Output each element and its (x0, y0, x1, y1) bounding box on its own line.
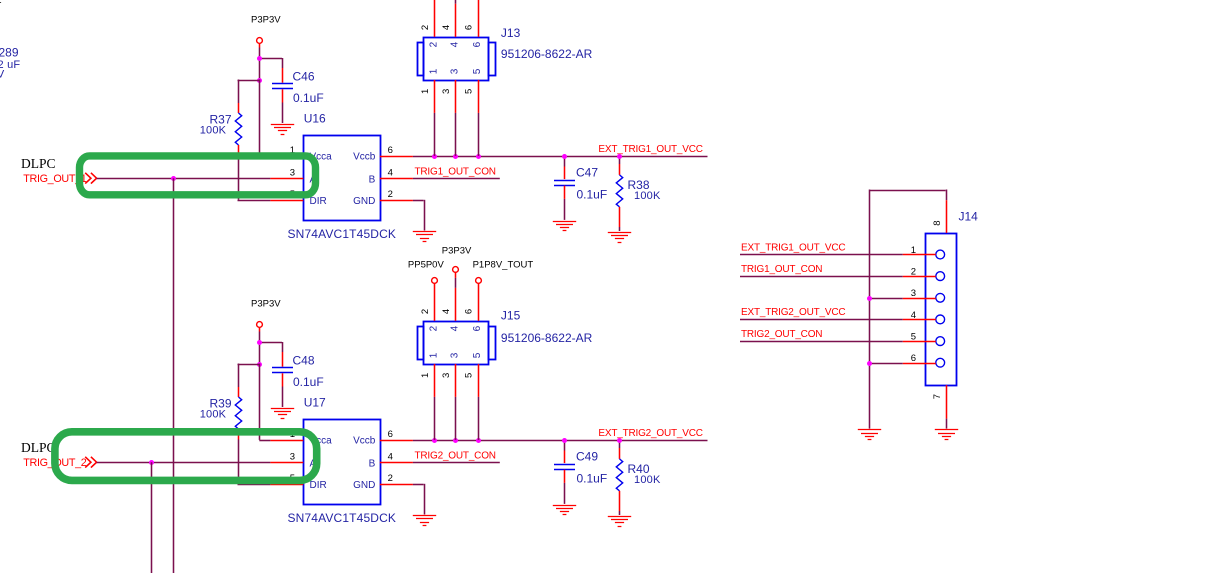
svg-text:2: 2 (388, 473, 393, 484)
wire J14 ground rail vertical (869, 190, 871, 429)
wire bus to cap C47 (564, 156, 566, 167)
capacitor C48 (272, 368, 293, 373)
junction bus res (617, 438, 622, 443)
wire cap drop (282, 342, 284, 352)
wire rail to Vcca horizontal (259, 440, 270, 442)
svg-text:2: 2 (429, 325, 440, 331)
power symbol P3P3V (U16 rail) (257, 38, 263, 44)
svg-text:3: 3 (911, 288, 916, 299)
wire GND pin (U17) (413, 484, 424, 486)
pin lead cap bottom red (282, 89, 284, 102)
wire power stem red (259, 43, 261, 48)
svg-text:TRIG2_OUT_CON: TRIG2_OUT_CON (741, 329, 822, 340)
wire R39 to DIR horizontal (238, 484, 271, 486)
pin lead cap top red (282, 68, 284, 83)
svg-text:2: 2 (911, 267, 916, 278)
svg-text:6: 6 (472, 41, 483, 47)
svg-text:B: B (369, 175, 376, 186)
svg-text:P3P3V: P3P3V (442, 245, 472, 256)
svg-text:5: 5 (472, 352, 483, 358)
pin 1 Vcca stub (U17) (270, 440, 303, 442)
wire TRIG_OUT_1 net (97, 178, 271, 180)
wire PP5P0V to J15 pin2 (434, 283, 436, 321)
svg-text:3: 3 (441, 89, 452, 94)
wire net EXT_TRIG1_OUT_VCC to J14 pin1 (740, 254, 903, 256)
wire cap to ground (282, 103, 284, 124)
junction J14 pin6 gnd (867, 361, 872, 366)
wire R37 to DIR horizontal (238, 200, 271, 202)
svg-text:3: 3 (441, 373, 452, 378)
junction bus cap (562, 438, 567, 443)
wire rail to Vcca vertical (259, 80, 261, 156)
svg-text:J14: J14 (959, 210, 979, 224)
pin lead R37 top red (238, 103, 240, 113)
wire rail to Vcca vertical (259, 364, 261, 440)
svg-text:TRIG1_OUT_CON: TRIG1_OUT_CON (741, 264, 822, 275)
svg-text:6: 6 (463, 309, 474, 314)
wire J13 pin 5 to bus (478, 113, 480, 156)
wire net EXT_TRIG2_OUT_VCC (413, 440, 708, 442)
svg-text:C46: C46 (293, 69, 315, 83)
pin lead cap top red (282, 352, 284, 367)
svg-text:T: T (0, 1, 2, 12)
svg-text:P1P8V_TOUT: P1P8V_TOUT (473, 259, 534, 270)
wire bus to cap C49 (564, 440, 566, 451)
wire P1P8V_TOUT to J15 pin6 (478, 283, 480, 321)
wire rail to Vcca horizontal (259, 156, 270, 158)
capacitor C49 (554, 465, 575, 470)
connector J15 left tab (418, 327, 424, 360)
svg-text:100K: 100K (200, 409, 227, 421)
pin 4 B stub (U16) (380, 178, 413, 180)
pin 2 stub J14 red (903, 276, 936, 278)
wire J13 pin 1 to bus (434, 113, 436, 156)
pin lead C47 top red (564, 167, 566, 180)
connector J13 right tab (489, 43, 496, 76)
svg-text:100K: 100K (634, 190, 661, 202)
svg-text:2: 2 (420, 25, 431, 30)
wire J13 pin 3 to bus (455, 113, 457, 156)
wire rail to R39 (238, 364, 260, 366)
power symbol P1P8V_TOUT (476, 278, 482, 284)
svg-text:6: 6 (472, 325, 483, 331)
svg-text:C47: C47 (576, 166, 598, 180)
wire net EXT_TRIG2_OUT_VCC to J14 pin4 (740, 319, 903, 321)
svg-text:J13: J13 (501, 26, 521, 40)
power symbol PP5P0V (432, 278, 438, 284)
wire to cap C48 (259, 342, 282, 344)
connector J15 right tab (489, 327, 496, 360)
svg-text:5: 5 (911, 332, 916, 343)
pin 4 stub J14 red (903, 319, 936, 321)
svg-text:4: 4 (388, 168, 393, 179)
wire R39 to DIR vertical (238, 440, 240, 484)
wire J14 pin8 drop (946, 190, 948, 201)
svg-text:0.1uF: 0.1uF (293, 91, 324, 105)
wire J15 pin 3 to bus (455, 397, 457, 440)
wire J14 pin8 top (869, 190, 946, 192)
off-page connector chevron TRIG_OUT_2 (85, 457, 96, 468)
ground (R38) (608, 233, 631, 243)
ground (C47) (553, 222, 576, 231)
pin lead C49 bottom red (564, 470, 566, 483)
wire power stem (259, 332, 261, 343)
svg-text:6: 6 (911, 353, 916, 364)
pin 3 stub J13 bottom red (455, 80, 457, 113)
ground (U17 GND) (413, 516, 436, 526)
wire R40 to ground (619, 511, 621, 515)
power symbol P3P3V (J15) (453, 267, 459, 273)
junction bus J pin5 (476, 438, 481, 443)
svg-text:3: 3 (450, 352, 461, 358)
pin 1 Vcca stub (U16) (270, 156, 303, 158)
svg-text:J15: J15 (501, 309, 521, 323)
svg-text:1: 1 (420, 373, 431, 378)
svg-text:P3P3V: P3P3V (251, 299, 281, 310)
wire J13 pin6 top off-page (478, 0, 480, 37)
wire GND drop (U17) (424, 484, 426, 515)
pin 6 Vccb stub (U17) (380, 440, 413, 442)
svg-text:GND: GND (353, 196, 375, 207)
pin 4 stub J15 top red (455, 288, 457, 321)
junction bus J pin3 (453, 438, 458, 443)
svg-text:4: 4 (441, 25, 452, 30)
wire P3P3V net segment (J15) (455, 278, 457, 288)
pin 1 stub J13 bottom red (434, 80, 436, 113)
wire C49 to ground (564, 483, 566, 504)
svg-text:EXT_TRIG1_OUT_VCC: EXT_TRIG1_OUT_VCC (598, 144, 702, 155)
wire GND drop (U16) (424, 200, 426, 231)
ground (U16 GND) (413, 232, 436, 242)
wire J15 pin 1 to bus (434, 397, 436, 440)
svg-text:6: 6 (388, 145, 393, 156)
svg-text:3: 3 (290, 452, 295, 463)
svg-text:GND: GND (353, 480, 375, 491)
pin 4 B stub (U17) (380, 462, 413, 464)
junction rail top (257, 340, 262, 345)
pin lead C49 top red (564, 451, 566, 464)
pin 5 DIR stub (U17) (270, 484, 303, 486)
wire R37 to DIR vertical (238, 156, 240, 200)
pin lead R39 top red (238, 387, 240, 397)
wire J13 pin2 top off-page (434, 0, 436, 37)
pin lead R38 bottom red (619, 207, 621, 227)
wire R38 to ground (619, 227, 621, 231)
svg-text:4: 4 (450, 325, 461, 331)
pin 2 GND stub (U16) (380, 200, 413, 202)
pin 1 circle (J14) (936, 250, 945, 259)
svg-text:Vccb: Vccb (353, 435, 376, 446)
svg-text:951206-8622-AR: 951206-8622-AR (501, 47, 593, 61)
wire TRIG_OUT_2 net (97, 462, 271, 464)
IC U16 body (304, 136, 381, 221)
svg-text:DLPC: DLPC (21, 440, 56, 455)
junction J14 pin3 gnd (867, 296, 872, 301)
pin 5 stub J13 bottom red (478, 80, 480, 113)
pin 2 GND stub (U17) (380, 484, 413, 486)
connector J15 body (424, 322, 489, 365)
svg-text:8: 8 (932, 220, 943, 225)
resistor R39 (235, 397, 241, 429)
wire R39 drop (238, 364, 240, 388)
svg-text:100K: 100K (634, 474, 661, 486)
svg-text:2: 2 (429, 41, 440, 47)
junction bus res (617, 154, 622, 159)
svg-text:3: 3 (450, 68, 461, 74)
wire net TRIG1_OUT_CON to J14 pin2 (740, 276, 903, 278)
junction rail bottom (257, 362, 262, 367)
pin lead R40 top red (619, 448, 621, 459)
svg-text:EXT_TRIG2_OUT_VCC: EXT_TRIG2_OUT_VCC (598, 428, 702, 439)
svg-text:4: 4 (911, 310, 916, 321)
svg-text:Vccb: Vccb (353, 151, 376, 162)
svg-text:5: 5 (463, 89, 474, 94)
wire bus to R38 (619, 156, 621, 164)
svg-text:6: 6 (463, 25, 474, 30)
wire power stem red (259, 327, 261, 332)
svg-text:1: 1 (429, 352, 440, 358)
wire to cap C46 (259, 58, 282, 60)
svg-text:DLPC: DLPC (21, 156, 56, 171)
pin 3 stub J14 red (903, 298, 936, 300)
pin 7 stub J14 red (946, 385, 948, 419)
svg-text:0.1uF: 0.1uF (293, 375, 324, 389)
pin 6 Vccb stub (U16) (380, 156, 413, 158)
wire J14 pin7 to ground (946, 419, 948, 429)
pin 5 stub J14 red (903, 341, 936, 343)
wire rail vertical (259, 58, 261, 80)
svg-text:7: 7 (932, 394, 943, 399)
svg-text:U16: U16 (304, 111, 326, 125)
wire gnd to J14 pin3 (869, 298, 903, 300)
power symbol P3P3V (U17 rail) (257, 322, 263, 328)
wire rail vertical (259, 342, 261, 364)
svg-text:5: 5 (472, 68, 483, 74)
svg-text:1: 1 (420, 89, 431, 94)
annotation green oval 2 (TRIG_OUT_2 highlight) (55, 432, 317, 481)
resistor R37 (235, 113, 241, 145)
junction bus cap (562, 154, 567, 159)
svg-text:3: 3 (290, 168, 295, 179)
svg-text:1: 1 (911, 245, 916, 256)
ground (J14 pin7) (935, 430, 958, 440)
svg-text:0.1uF: 0.1uF (577, 188, 608, 202)
wire net TRIG2_OUT_CON (413, 462, 500, 464)
ground (C49) (553, 506, 576, 515)
pin 4 circle (J14) (936, 315, 945, 324)
svg-text:TRIG1_OUT_CON: TRIG1_OUT_CON (415, 166, 496, 177)
junction bus J pin1 (432, 438, 437, 443)
svg-text:V: V (0, 69, 5, 81)
pin 1 stub J14 red (903, 254, 936, 256)
svg-text:DIR: DIR (310, 480, 327, 491)
capacitor C47 (554, 181, 575, 186)
wire cap drop (282, 58, 284, 68)
ground (C46) (271, 125, 294, 135)
wire rail to R37 (238, 80, 260, 82)
junction TRIG_OUT_2 branch (149, 460, 154, 465)
wire power stem (259, 48, 261, 59)
svg-text:0.1uF: 0.1uF (577, 472, 608, 486)
wire net TRIG1_OUT_CON (413, 178, 500, 180)
svg-text:951206-8622-AR: 951206-8622-AR (501, 331, 593, 345)
wire P3P3V stem red (J15) (455, 272, 457, 278)
pin lead R37 bottom red (238, 145, 240, 156)
pin 8 stub J14 red (946, 200, 948, 233)
svg-text:4: 4 (450, 41, 461, 47)
pin 5 DIR stub (U16) (270, 200, 303, 202)
junction rail top (257, 56, 262, 61)
junction bus J pin5 (476, 154, 481, 159)
junction rail bottom (257, 78, 262, 83)
wire TRIG_OUT_1 vertical to bottom (173, 178, 175, 573)
ground (J14 rail) (858, 430, 881, 440)
IC U17 body (304, 420, 381, 505)
connector J13 left tab (418, 43, 424, 76)
svg-text:PP5P0V: PP5P0V (408, 259, 445, 270)
wire R37 drop (238, 80, 240, 104)
wire bus to R40 (619, 440, 621, 448)
svg-text:SN74AVC1T45DCK: SN74AVC1T45DCK (288, 511, 397, 525)
pin 5 stub J15 bottom red (478, 364, 480, 397)
wire GND pin (U16) (413, 200, 424, 202)
connector J14 body (926, 234, 957, 386)
pin 2 circle (J14) (936, 272, 945, 281)
pin 1 stub J15 bottom red (434, 364, 436, 397)
svg-text:289: 289 (0, 46, 19, 60)
ground (C48) (271, 409, 294, 419)
resistor R40 (616, 459, 622, 491)
wire net TRIG2_OUT_CON to J14 pin5 (740, 341, 903, 343)
wire J15 pin 5 to bus (478, 397, 480, 440)
pin 4 stub J13 top red (455, 4, 457, 37)
pin lead R40 bottom red (619, 491, 621, 511)
svg-text:4: 4 (388, 452, 393, 463)
svg-text:2: 2 (388, 189, 393, 200)
wire TRIG_OUT_2 vertical to bottom (151, 462, 153, 573)
connector J13 body (424, 38, 489, 81)
wire gnd to J14 pin6 (869, 363, 903, 365)
resistor R38 (616, 175, 622, 207)
pin 6 circle (J14) (936, 358, 945, 367)
pin lead C47 bottom red (564, 186, 566, 199)
pin 3 circle (J14) (936, 293, 945, 302)
pin 3 stub J15 bottom red (455, 364, 457, 397)
wire cap to ground (282, 387, 284, 408)
capacitor C46 (272, 84, 293, 89)
pin lead R38 top red (619, 164, 621, 175)
ground (R40) (608, 517, 631, 527)
junction bus J pin1 (432, 154, 437, 159)
svg-text:EXT_TRIG2_OUT_VCC: EXT_TRIG2_OUT_VCC (741, 307, 845, 318)
svg-text:5: 5 (463, 373, 474, 378)
svg-text:DIR: DIR (310, 196, 327, 207)
svg-text:4: 4 (441, 309, 452, 314)
pin 3 A stub (U16) (270, 178, 303, 180)
svg-text:B: B (369, 459, 376, 470)
off-page connector chevron TRIG_OUT_1 (85, 173, 96, 184)
pin lead cap bottom red (282, 373, 284, 386)
svg-text:TRIG2_OUT_CON: TRIG2_OUT_CON (415, 450, 496, 461)
svg-text:100K: 100K (200, 125, 227, 137)
pin 5 circle (J14) (936, 337, 945, 346)
svg-text:C48: C48 (293, 353, 315, 367)
pin 6 stub J14 red (903, 363, 936, 365)
wire C47 to ground (564, 199, 566, 220)
junction TRIG_OUT_1 branch (171, 176, 176, 181)
svg-text:2: 2 (420, 309, 431, 314)
wire net EXT_TRIG1_OUT_VCC (413, 156, 708, 158)
svg-text:6: 6 (388, 429, 393, 440)
svg-text:U17: U17 (304, 395, 326, 409)
wire J13 pin4 top off-page maroon tip (455, 0, 457, 4)
annotation green oval 1 (TRIG_OUT_1 highlight) (80, 156, 316, 195)
pin lead R39 bottom red (238, 429, 240, 440)
pin 3 A stub (U17) (270, 462, 303, 464)
svg-text:SN74AVC1T45DCK: SN74AVC1T45DCK (288, 227, 397, 241)
svg-text:1: 1 (429, 68, 440, 74)
junction bus J pin3 (453, 154, 458, 159)
svg-text:P3P3V: P3P3V (251, 15, 281, 26)
svg-text:C49: C49 (576, 450, 598, 464)
svg-text:EXT_TRIG1_OUT_VCC: EXT_TRIG1_OUT_VCC (741, 242, 845, 253)
